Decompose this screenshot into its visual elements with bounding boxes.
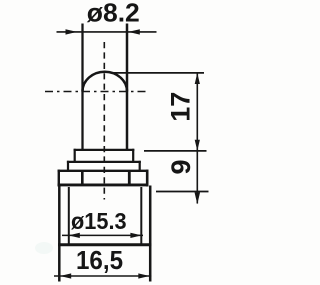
dimension line 16.5 [54, 275, 152, 277]
svg-text:16,5: 16,5 [76, 247, 123, 275]
step2 right edge [139, 161, 141, 172]
dimension line ø8.2 [57, 31, 157, 33]
nut band left edge [58, 170, 60, 187]
nut band bottom edge / base top [58, 183, 149, 186]
extension line bottom of 9 [156, 191, 209, 193]
arrow left of ø15.3 [68, 233, 79, 238]
step2 left edge [67, 161, 69, 172]
arrow left of 16.5 [60, 273, 71, 278]
arrow right of ø15.3 [130, 233, 141, 238]
base left side [58, 186, 61, 282]
horizontal centerline [45, 91, 150, 93]
dimension line 17 and 9 vertical [196, 73, 198, 204]
step1 right edge [132, 149, 134, 163]
dimension line ø15.3 [62, 234, 143, 236]
nut band top edge [58, 170, 149, 172]
svg-text:ø15.3: ø15.3 [71, 208, 127, 234]
svg-text:9: 9 [166, 159, 196, 174]
nut band right edge [146, 170, 149, 187]
arrow down at bottom of 17 [195, 140, 200, 151]
arrow left of ø8.2 [66, 29, 78, 34]
svg-text:17: 17 [166, 92, 196, 122]
nut band facet tick right [128, 171, 131, 186]
bore line left [68, 187, 70, 244]
wire extension-right / stem right side [126, 24, 129, 151]
arrow right of 16.5 [138, 273, 149, 278]
step1 top edge [74, 149, 135, 151]
nut band facet tick left [81, 171, 84, 186]
step2 top edge [67, 161, 141, 163]
extension line top of 17 [112, 72, 205, 74]
svg-text:ø8.2: ø8.2 [87, 0, 140, 28]
base right side [149, 186, 152, 282]
arrow up at top of 17 [195, 73, 200, 84]
wire extension-left / stem left side [81, 24, 83, 151]
arrow below 9 extension [195, 192, 201, 204]
vertical centerline [103, 42, 105, 200]
base bottom edge [58, 243, 152, 246]
bore line right [140, 187, 142, 244]
dome arc of boot [83, 72, 128, 92]
arrow right of ø8.2 [128, 29, 140, 34]
extension line 17/9 boundary [144, 150, 207, 152]
step1 left edge [74, 149, 76, 163]
